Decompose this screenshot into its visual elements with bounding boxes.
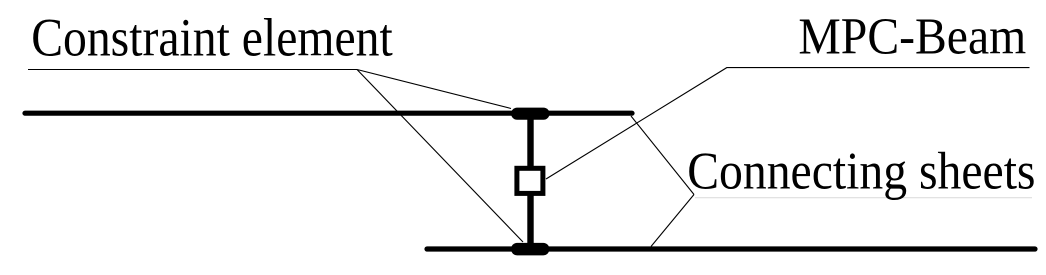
beam element square xyxy=(517,168,543,193)
connecting sheet (bottom) xyxy=(427,246,1035,251)
constraint node (bottom) xyxy=(511,243,549,256)
wire: leader branch to bottom constraint node xyxy=(357,70,523,243)
wire: leader of "MPC-Beam" label xyxy=(546,68,1030,179)
wire: faint underline of "Connecting sheets" xyxy=(695,197,1032,199)
wire: leader underline of "Constraint element" xyxy=(28,69,357,71)
constraint node (top) xyxy=(511,108,549,120)
svg-text:Connecting sheets: Connecting sheets xyxy=(687,141,1035,200)
wire: leader branch to top constraint node xyxy=(357,70,511,109)
svg-text:Constraint element: Constraint element xyxy=(31,9,393,68)
wire: leader of "Connecting sheets" to bottom sheet xyxy=(651,195,694,247)
MPC beam (vertical) xyxy=(527,112,533,250)
connecting sheet (top) xyxy=(25,111,632,116)
wire: leader of "Connecting sheets" to top sheet xyxy=(631,116,694,195)
svg-text:MPC-Beam: MPC-Beam xyxy=(798,6,1026,64)
